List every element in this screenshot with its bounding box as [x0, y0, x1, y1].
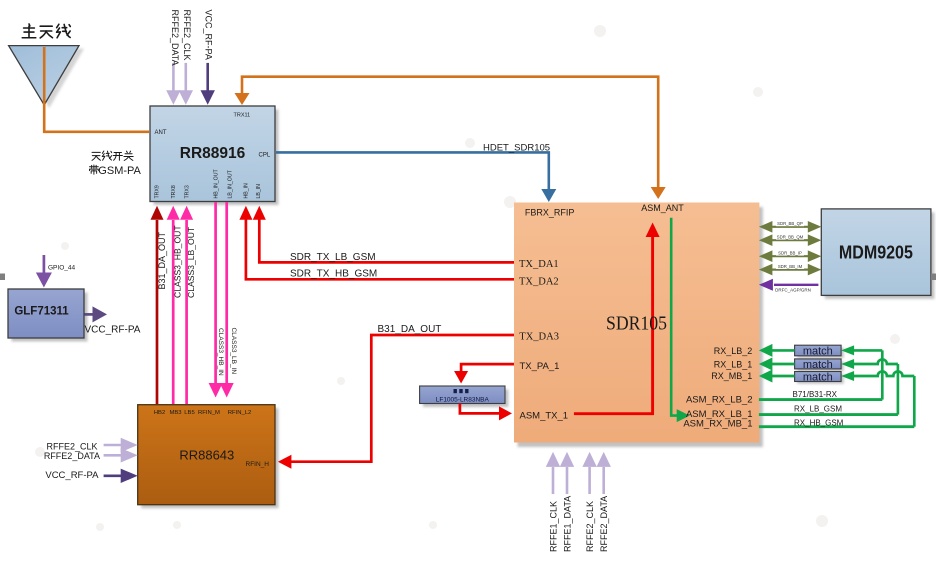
svg-text:GSM-PA: GSM-PA — [98, 165, 141, 177]
svg-text:TX_PA_1: TX_PA_1 — [520, 361, 560, 372]
svg-text:DRFC_AGP/GRN: DRFC_AGP/GRN — [775, 288, 811, 293]
svg-text:GPIO_44: GPIO_44 — [48, 265, 75, 272]
svg-text:TX_DA1: TX_DA1 — [519, 259, 559, 270]
svg-text:ASM_TX_1: ASM_TX_1 — [520, 410, 569, 421]
svg-text:VCC_RF-PA: VCC_RF-PA — [203, 10, 213, 60]
svg-text:RR88643: RR88643 — [179, 448, 234, 463]
svg-text:RFFE2_DATA: RFFE2_DATA — [170, 10, 180, 66]
svg-text:RFFE1_CLK: RFFE1_CLK — [549, 501, 559, 552]
svg-text:SDR_BB_QM: SDR_BB_QM — [777, 235, 804, 240]
svg-text:LB_IN: LB_IN — [256, 184, 262, 199]
svg-text:TRX9: TRX9 — [155, 185, 161, 198]
svg-text:MB3: MB3 — [169, 410, 182, 416]
svg-text:GLF71311: GLF71311 — [14, 306, 69, 318]
svg-text:LF1005-LR83NBA: LF1005-LR83NBA — [436, 397, 490, 404]
svg-text:B31_DA_OUT: B31_DA_OUT — [157, 231, 167, 289]
svg-text:RFIN_H: RFIN_H — [246, 461, 270, 468]
svg-text:B71/B31-RX: B71/B31-RX — [793, 390, 838, 399]
svg-text:TX_DA3: TX_DA3 — [519, 331, 559, 342]
svg-text:RFIN_M: RFIN_M — [198, 410, 220, 416]
svg-text:LB5: LB5 — [184, 410, 195, 416]
svg-text:match: match — [803, 346, 833, 358]
svg-text:CPL: CPL — [259, 153, 271, 159]
svg-text:RX_HB_GSM: RX_HB_GSM — [794, 419, 844, 428]
svg-text:TRX3: TRX3 — [184, 185, 190, 198]
svg-text:FBRX_RFIP: FBRX_RFIP — [525, 208, 575, 218]
svg-text:RFFE2_DATA: RFFE2_DATA — [44, 451, 100, 461]
svg-text:RFFE2_CLK: RFFE2_CLK — [46, 441, 97, 451]
svg-text:RX_LB_GSM: RX_LB_GSM — [794, 405, 842, 414]
svg-text:VCC_RF-PA: VCC_RF-PA — [45, 470, 99, 481]
svg-text:CLASS3_LB_OUT: CLASS3_LB_OUT — [186, 226, 196, 298]
svg-text:RX_LB_1: RX_LB_1 — [714, 359, 753, 369]
svg-text:TRX8: TRX8 — [171, 185, 177, 198]
svg-text:B31_DA_OUT: B31_DA_OUT — [378, 324, 442, 335]
svg-text:SDR_BB_QP: SDR_BB_QP — [777, 221, 803, 226]
svg-text:HB_IN_OUT: HB_IN_OUT — [213, 169, 219, 199]
svg-text:ASM_RX_MB_1: ASM_RX_MB_1 — [683, 419, 752, 430]
svg-text:HB_IN: HB_IN — [244, 183, 250, 199]
svg-text:CLASS3_LB_IN: CLASS3_LB_IN — [230, 328, 237, 375]
svg-text:VCC_RF-PA: VCC_RF-PA — [85, 325, 141, 336]
svg-text:TX_DA2: TX_DA2 — [519, 276, 559, 287]
svg-text:MDM9205: MDM9205 — [839, 243, 913, 263]
svg-text:RFIN_L2: RFIN_L2 — [228, 410, 252, 416]
svg-text:RFFE2_CLK: RFFE2_CLK — [585, 501, 595, 552]
svg-text:HDET_SDR105: HDET_SDR105 — [483, 143, 550, 154]
svg-text:SDR_TX_LB_GSM: SDR_TX_LB_GSM — [290, 252, 376, 263]
svg-text:SDR_TX_HB_GSM: SDR_TX_HB_GSM — [290, 269, 377, 280]
svg-text:RX_LB_2: RX_LB_2 — [714, 346, 753, 356]
svg-text:ASM_RX_LB_2: ASM_RX_LB_2 — [686, 395, 753, 406]
svg-text:SDR_BB_IP: SDR_BB_IP — [778, 251, 802, 256]
svg-text:SDR105: SDR105 — [606, 313, 667, 335]
svg-text:CLASS3_HB_IN: CLASS3_HB_IN — [217, 328, 224, 376]
svg-text:match: match — [803, 359, 833, 371]
svg-text:LB_IN_OUT: LB_IN_OUT — [227, 169, 233, 198]
svg-text:RFFE2_DATA: RFFE2_DATA — [599, 496, 609, 552]
svg-text:RFFE2_CLK: RFFE2_CLK — [182, 10, 192, 61]
svg-text:SDR_BB_IM: SDR_BB_IM — [778, 264, 803, 269]
svg-text:ASM_ANT: ASM_ANT — [641, 203, 684, 213]
svg-text:TRX11: TRX11 — [234, 113, 251, 119]
svg-text:RFFE1_DATA: RFFE1_DATA — [563, 496, 573, 552]
svg-text:match: match — [803, 371, 833, 383]
svg-text:RR88916: RR88916 — [180, 145, 246, 162]
svg-text:HB2: HB2 — [154, 410, 165, 416]
svg-text:CLASS3_HB_OUT: CLASS3_HB_OUT — [173, 225, 183, 298]
svg-text:ANT: ANT — [155, 130, 167, 136]
svg-text:RX_MB_1: RX_MB_1 — [711, 371, 752, 381]
